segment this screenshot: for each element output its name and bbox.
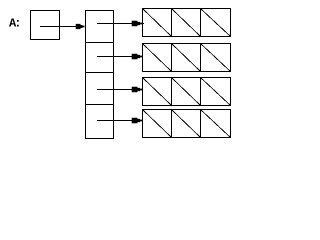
wire A to column (40, 26, 82, 28)
pointer-array column box (86, 11, 114, 139)
arrowhead cell1 to row1 (132, 21, 142, 26)
row2 divider 2 (200, 43, 202, 72)
column divider 3 (85, 104, 114, 106)
row2 box (143, 44, 231, 72)
row2 cell2 slash (172, 44, 201, 72)
row1 box (143, 9, 231, 37)
row3 cell2 slash (172, 78, 201, 106)
column divider 1 (85, 42, 114, 44)
pointer box A (31, 11, 60, 40)
wire cell2 to row2 (97, 56, 142, 58)
row3 box (143, 78, 231, 106)
arrowhead A to column (76, 24, 85, 29)
row3 divider 1 (171, 77, 173, 106)
row4 cell3 slash (201, 110, 231, 138)
row2 divider 1 (171, 43, 173, 72)
wire cell1 to row1 (97, 23, 144, 25)
row3 cell1 slash (143, 78, 172, 106)
row4 box (143, 110, 231, 138)
row1 cell1 slash (143, 9, 172, 37)
row1 divider 1 (171, 8, 173, 37)
row1 cell2 slash (172, 9, 201, 37)
svg-text::: : (14, 17, 21, 31)
row1 divider 2 (200, 8, 202, 37)
column divider 2 (85, 72, 114, 74)
row4 cell2 slash (172, 110, 201, 138)
row1 cell3 slash (201, 9, 231, 37)
row2 cell3 slash (201, 44, 231, 72)
wire cell3 to row3 (97, 89, 142, 91)
row4 cell1 slash (143, 110, 172, 138)
arrowhead cell3 to row3 (132, 87, 142, 92)
arrowhead cell2 to row2 (132, 54, 142, 59)
wire cell4 to row4 (97, 120, 142, 122)
row3 divider 2 (200, 77, 202, 106)
row3 cell3 slash (201, 78, 231, 106)
row4 divider 1 (171, 109, 173, 138)
row2 cell1 slash (143, 44, 172, 72)
row4 divider 2 (200, 109, 202, 138)
arrowhead cell4 to row4 (132, 118, 142, 123)
